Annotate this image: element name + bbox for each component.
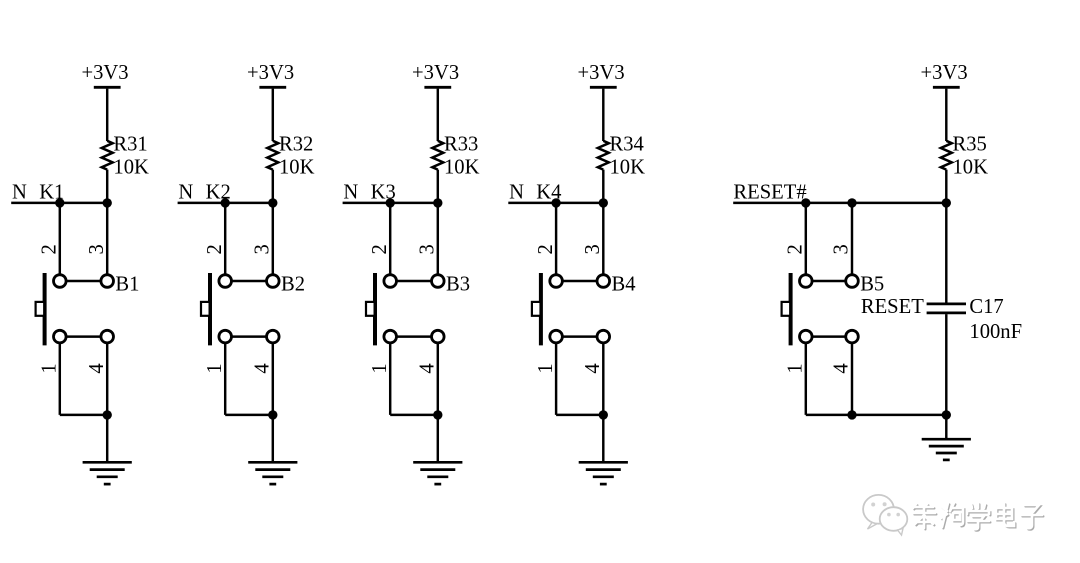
svg-text:N: N: [509, 181, 524, 203]
wire pin 1 down: [59, 342, 61, 415]
svg-text:1: 1: [369, 363, 391, 373]
wire pin 1 to pin 4 of B4: [556, 335, 603, 337]
svg-text:B2: B2: [281, 274, 305, 296]
power symbol +3V3: [247, 62, 294, 88]
svg-text:1: 1: [39, 363, 61, 373]
svg-text:N: N: [343, 181, 358, 203]
pin 1 terminal of B1: [54, 330, 67, 343]
svg-text:2: 2: [369, 244, 391, 254]
svg-text:R31: R31: [113, 133, 147, 155]
net label N_K4: [509, 181, 561, 203]
pin 3 terminal of B5: [846, 275, 859, 288]
pin 4 terminal of B4: [597, 330, 610, 343]
wire pin 1 to pin 4 of B2: [225, 335, 273, 337]
junction at net node left: [55, 198, 64, 207]
svg-text:2: 2: [39, 244, 61, 254]
wire pin 2 to pin 3 of B3: [390, 280, 438, 282]
switch B1 actuator bar: [43, 273, 47, 345]
resistor R31: [102, 141, 113, 170]
junction at net node left: [386, 198, 395, 207]
resistor R32: [267, 141, 278, 170]
wire pin 4 to ground: [437, 342, 439, 464]
pin 2 terminal of B3: [384, 275, 397, 288]
pin 3 terminal of B3: [432, 275, 445, 288]
pin 4 terminal of B2: [267, 330, 280, 343]
pin 3 terminal of B1: [101, 275, 114, 288]
wire node to capacitor C17: [945, 203, 947, 303]
wire bottom horizontal: [225, 414, 273, 416]
junction at bottom wire: [103, 410, 112, 419]
capacitor C17: [927, 304, 966, 313]
switch B4 plunger: [532, 302, 541, 316]
wire +3V3 bar to resistor R33: [437, 89, 439, 141]
pin 2 terminal of B4: [550, 275, 563, 288]
junction at bottom wire: [268, 410, 277, 419]
switch B2 actuator bar: [208, 273, 212, 345]
wire net RESET# horizontal: [733, 202, 946, 204]
resistor R34: [598, 141, 609, 170]
svg-text:C17: C17: [969, 296, 1003, 318]
ground: [922, 439, 971, 460]
wire node to pin 2 of B2: [224, 203, 226, 276]
svg-text:R32: R32: [279, 133, 313, 155]
junction at resistor bottom: [268, 198, 277, 207]
svg-text:4: 4: [582, 363, 604, 373]
wire net N_K2 horizontal: [178, 202, 273, 204]
wire node to pin 2 of B1: [59, 203, 61, 276]
wire +3V3 bar to resistor R35: [945, 89, 947, 141]
wire net N_K1 horizontal: [11, 202, 107, 204]
switch B3 plunger: [366, 302, 375, 316]
wire capacitor C17 to ground: [945, 314, 947, 440]
junction at net node left: [221, 198, 230, 207]
svg-text:4: 4: [417, 363, 439, 373]
wire resistor R33 to node: [437, 170, 439, 203]
junction at bottom wire: [599, 410, 608, 419]
svg-text:4: 4: [831, 363, 853, 373]
svg-text:B1: B1: [115, 274, 139, 296]
wire resistor R34 to node: [602, 170, 604, 203]
pin 3 terminal of B4: [597, 275, 610, 288]
net label N_K1: [12, 181, 64, 203]
junction at resistor R35 bottom: [942, 198, 951, 207]
power symbol +3V3: [412, 62, 459, 88]
svg-text:3: 3: [252, 244, 274, 254]
wire +3V3 bar to resistor R34: [602, 89, 604, 141]
wire net N_K4 horizontal: [508, 202, 603, 204]
svg-text:R34: R34: [610, 133, 644, 155]
wire pin 4 to ground: [602, 342, 604, 464]
wire resistor R35 to node: [945, 170, 947, 203]
svg-text:R33: R33: [444, 133, 478, 155]
svg-text:2: 2: [785, 244, 807, 254]
wire +3V3 bar to resistor R31: [106, 89, 108, 141]
wire bottom horizontal: [556, 414, 603, 416]
power symbol +3V3: [81, 62, 128, 88]
wire node to pin 2 of B5: [805, 203, 807, 276]
junction at bottom wire capacitor: [942, 410, 951, 419]
junction at bottom wire pin4: [847, 410, 856, 419]
svg-text:B3: B3: [446, 274, 470, 296]
svg-text:+3V3: +3V3: [247, 62, 294, 84]
svg-text:1: 1: [535, 363, 557, 373]
svg-text:3: 3: [582, 244, 604, 254]
pin 3 terminal of B2: [267, 275, 280, 288]
junction at RESET# middle: [847, 198, 856, 207]
ground: [413, 462, 462, 484]
wire pin 2 to pin 3 of B2: [225, 280, 273, 282]
wire pin 4 down: [851, 342, 853, 415]
svg-text:N: N: [12, 181, 27, 203]
svg-text:R35: R35: [953, 133, 987, 155]
svg-text:+3V3: +3V3: [578, 62, 625, 84]
switch B5 plunger: [782, 302, 791, 316]
svg-text:+3V3: +3V3: [412, 62, 459, 84]
wire pin 4 to ground: [106, 342, 108, 464]
svg-text:RESET#: RESET#: [733, 181, 806, 203]
junction at net node left: [551, 198, 560, 207]
junction at resistor bottom: [599, 198, 608, 207]
wire resistor R31 to node: [106, 170, 108, 203]
pin 1 terminal of B4: [550, 330, 563, 343]
wire bottom horizontal: [60, 414, 107, 416]
pin 2 terminal of B5: [800, 275, 813, 288]
svg-text:N: N: [178, 181, 193, 203]
watermark wechat icon: [863, 495, 907, 535]
junction at resistor bottom: [433, 198, 442, 207]
wire pin 2 to pin 3 of B5: [806, 280, 852, 282]
svg-text:10K: 10K: [113, 157, 149, 179]
svg-text:+3V3: +3V3: [921, 62, 968, 84]
switch B4 actuator bar: [539, 273, 543, 345]
wire node to pin 3 of B4: [602, 203, 604, 276]
wire pin 1 to pin 4 of B1: [60, 335, 107, 337]
ground: [248, 462, 297, 484]
svg-text:10K: 10K: [953, 157, 989, 179]
net label N_K3: [343, 181, 395, 203]
pin 1 terminal of B5: [800, 330, 813, 343]
svg-text:3: 3: [86, 244, 108, 254]
svg-text:3: 3: [417, 244, 439, 254]
wire node to pin 3 of B3: [437, 203, 439, 276]
svg-text:B5: B5: [860, 274, 884, 296]
power symbol +3V3: [921, 62, 968, 88]
junction at resistor bottom: [103, 198, 112, 207]
wire pin 1 down: [555, 342, 557, 415]
wire pin 2 to pin 3 of B1: [60, 280, 107, 282]
svg-text:4: 4: [252, 363, 274, 373]
wire pin 2 to pin 3 of B4: [556, 280, 603, 282]
wire node to pin 2 of B3: [389, 203, 391, 276]
ground: [83, 462, 132, 484]
watermark text 笨狗学电子 (drawn strokes): [913, 503, 1043, 531]
wire resistor R32 to node: [272, 170, 274, 203]
junction at RESET# left: [801, 198, 810, 207]
wire pin 1 to pin 4 of B3: [390, 335, 438, 337]
pin 1 terminal of B3: [384, 330, 397, 343]
svg-text:+3V3: +3V3: [81, 62, 128, 84]
junction at bottom wire: [433, 410, 442, 419]
resistor R35: [941, 141, 952, 170]
wire pin 1 to pin 4 of B5: [806, 335, 852, 337]
svg-text:2: 2: [204, 244, 226, 254]
svg-text:100nF: 100nF: [969, 321, 1022, 343]
ground: [579, 462, 628, 484]
wire +3V3 bar to resistor R32: [272, 89, 274, 141]
wire bottom horizontal: [806, 414, 947, 416]
wire pin 4 to ground: [272, 342, 274, 464]
wire pin 1 down: [389, 342, 391, 415]
svg-text:10K: 10K: [610, 157, 646, 179]
power symbol +3V3: [578, 62, 625, 88]
svg-text:10K: 10K: [279, 157, 315, 179]
svg-text:2: 2: [535, 244, 557, 254]
svg-text:1: 1: [785, 363, 807, 373]
wire pin 1 down: [805, 342, 807, 415]
wire node to pin 3 of B1: [106, 203, 108, 276]
switch B5 actuator bar: [789, 273, 793, 345]
svg-text:RESET: RESET: [861, 296, 924, 318]
wire pin 1 down: [224, 342, 226, 415]
svg-text:3: 3: [831, 244, 853, 254]
net label N_K2: [178, 181, 230, 203]
wire node to pin 3 of B2: [272, 203, 274, 276]
svg-text:1: 1: [204, 363, 226, 373]
pin 4 terminal of B3: [432, 330, 445, 343]
svg-text:B4: B4: [612, 274, 636, 296]
svg-text:4: 4: [86, 363, 108, 373]
wire net N_K3 horizontal: [343, 202, 438, 204]
pin 2 terminal of B2: [219, 275, 232, 288]
wire node to pin 3 of B5: [851, 203, 853, 276]
pin 4 terminal of B1: [101, 330, 114, 343]
pin 4 terminal of B5: [846, 330, 859, 343]
wire bottom horizontal: [390, 414, 438, 416]
switch B2 plunger: [201, 302, 210, 316]
switch B1 plunger: [36, 302, 45, 316]
svg-text:10K: 10K: [444, 157, 480, 179]
resistor R33: [432, 141, 443, 170]
wire node to pin 2 of B4: [555, 203, 557, 276]
pin 2 terminal of B1: [54, 275, 67, 288]
pin 1 terminal of B2: [219, 330, 232, 343]
switch B3 actuator bar: [373, 273, 377, 345]
